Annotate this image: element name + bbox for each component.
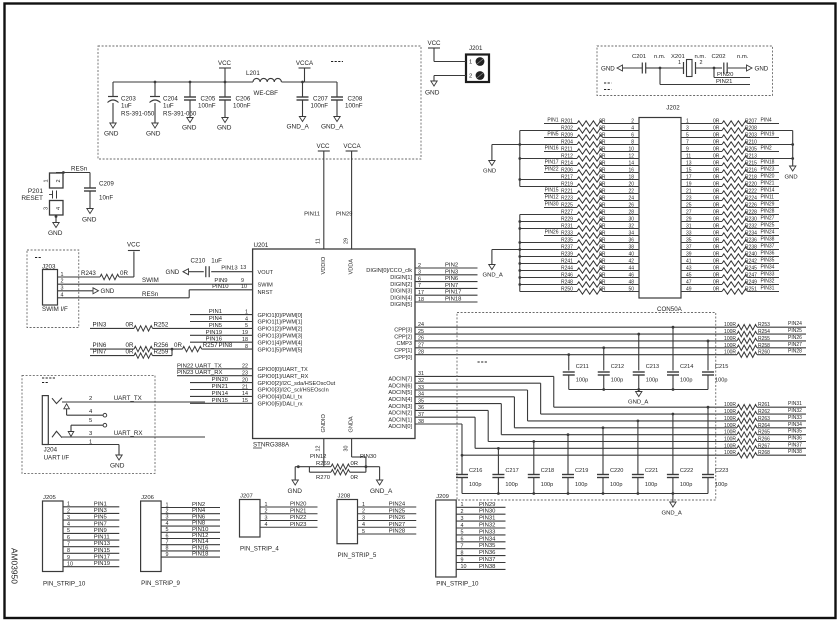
svg-text:1: 1 [44, 179, 50, 182]
svg-text:4: 4 [362, 522, 365, 528]
svg-text:DIGIN[1]: DIGIN[1] [390, 275, 412, 281]
svg-text:0R: 0R [599, 154, 606, 160]
svg-text:UART_TX: UART_TX [114, 395, 142, 402]
svg-text:PIN7: PIN7 [93, 349, 107, 356]
svg-text:PIN37: PIN37 [479, 557, 495, 563]
svg-text:5: 5 [166, 527, 169, 533]
svg-text:CMP3: CMP3 [396, 341, 412, 347]
svg-text:PIN28: PIN28 [761, 209, 775, 215]
svg-text:33: 33 [686, 231, 692, 237]
svg-text:23: 23 [686, 196, 692, 202]
svg-text:100nF: 100nF [198, 103, 216, 110]
svg-text:n.m.: n.m. [737, 54, 749, 60]
svg-text:R223: R223 [561, 196, 573, 202]
svg-text:5: 5 [461, 530, 464, 536]
svg-text:PIN_STRIP_5: PIN_STRIP_5 [338, 552, 377, 559]
svg-text:R243: R243 [81, 270, 96, 277]
svg-text:0R: 0R [713, 203, 720, 209]
svg-text:0R: 0R [713, 126, 720, 132]
svg-text:0R: 0R [599, 224, 606, 230]
svg-text:GND_A: GND_A [483, 273, 503, 279]
svg-text:J204: J204 [44, 447, 58, 454]
svg-text:GPIO0[3]/I2C_scl/HSEOscIn: GPIO0[3]/I2C_scl/HSEOscIn [258, 388, 329, 394]
svg-text:4: 4 [166, 521, 169, 527]
svg-text:0R: 0R [599, 287, 606, 293]
svg-text:3: 3 [67, 515, 70, 521]
svg-text:2: 2 [700, 60, 703, 66]
svg-text:100R: 100R [724, 329, 736, 335]
svg-text:35: 35 [686, 238, 692, 244]
svg-text:0R: 0R [599, 245, 606, 251]
svg-text:R235: R235 [561, 238, 573, 244]
svg-text:PIN1: PIN1 [94, 501, 107, 507]
svg-text:PIN16: PIN16 [545, 146, 559, 152]
svg-text:C223: C223 [715, 468, 728, 474]
svg-text:20: 20 [628, 182, 634, 188]
svg-text:7: 7 [461, 544, 464, 550]
svg-text:C209: C209 [99, 181, 114, 188]
svg-text:PIN26: PIN26 [788, 335, 802, 341]
svg-text:PIN25: PIN25 [389, 508, 406, 514]
svg-text:GND: GND [146, 131, 161, 138]
svg-text:VCCA: VCCA [343, 143, 361, 150]
svg-text:C202: C202 [712, 54, 726, 60]
svg-text:PIN20: PIN20 [717, 72, 734, 78]
svg-text:GND: GND [110, 463, 125, 470]
svg-text:0R: 0R [351, 461, 359, 467]
svg-text:29: 29 [343, 238, 349, 244]
svg-text:PIN26: PIN26 [545, 230, 559, 236]
svg-text:0R: 0R [713, 119, 720, 125]
svg-text:13: 13 [240, 265, 246, 271]
svg-text:31: 31 [686, 224, 692, 230]
svg-text:PIN3: PIN3 [445, 269, 459, 275]
svg-text:PIN10: PIN10 [192, 527, 209, 533]
svg-text:C222: C222 [680, 468, 693, 474]
svg-text:C205: C205 [201, 96, 216, 103]
svg-text:1: 1 [265, 502, 268, 508]
svg-text:0R: 0R [713, 133, 720, 139]
svg-text:1: 1 [469, 60, 472, 66]
svg-text:100p: 100p [575, 482, 587, 488]
svg-text:25: 25 [686, 203, 692, 209]
svg-text:PIN12: PIN12 [310, 454, 326, 460]
svg-text:R225: R225 [561, 203, 573, 209]
svg-text:PIN7: PIN7 [94, 521, 107, 527]
svg-text:J209: J209 [436, 494, 449, 500]
svg-text:PIN32: PIN32 [479, 523, 495, 529]
svg-text:ADCIN[7]: ADCIN[7] [388, 377, 412, 383]
svg-text:R227: R227 [561, 210, 573, 216]
svg-text:PIN34: PIN34 [761, 265, 775, 271]
svg-text:PIN17: PIN17 [545, 160, 559, 166]
svg-text:0R: 0R [120, 270, 128, 277]
svg-text:PIN36: PIN36 [761, 251, 775, 257]
svg-text:0R: 0R [713, 266, 720, 272]
svg-text:PIN2: PIN2 [761, 146, 772, 152]
svg-text:C219: C219 [575, 468, 588, 474]
svg-text:0R: 0R [713, 168, 720, 174]
svg-text:0R: 0R [599, 280, 606, 286]
svg-text:PIN22: PIN22 [545, 167, 559, 173]
svg-text:GPIO0[0]/UART_TX: GPIO0[0]/UART_TX [258, 367, 309, 373]
svg-text:PIN20: PIN20 [761, 174, 775, 180]
svg-text:PIN23 UART_RX: PIN23 UART_RX [177, 370, 222, 376]
svg-text:PIN8: PIN8 [192, 521, 206, 527]
svg-text:ADCIN[1]: ADCIN[1] [388, 417, 412, 423]
svg-text:DIGIN[2]: DIGIN[2] [390, 282, 412, 288]
svg-text:GNDIO: GNDIO [321, 414, 327, 433]
svg-text:GND_A: GND_A [662, 511, 682, 517]
svg-text:100p: 100p [680, 482, 692, 488]
svg-text:0R: 0R [599, 175, 606, 181]
svg-text:PIN27: PIN27 [389, 522, 405, 528]
svg-text:ADCIN[6]: ADCIN[6] [388, 383, 412, 389]
svg-text:2: 2 [461, 509, 464, 515]
svg-text:100p: 100p [680, 378, 692, 384]
svg-text:100R: 100R [724, 437, 736, 443]
svg-text:100p: 100p [645, 482, 657, 488]
svg-text:8: 8 [631, 140, 634, 146]
svg-text:10: 10 [628, 147, 634, 153]
svg-text:8: 8 [461, 550, 464, 556]
svg-text:PIN17: PIN17 [445, 290, 461, 296]
svg-text:PIN25: PIN25 [788, 328, 802, 334]
svg-text:PIN10: PIN10 [212, 284, 229, 290]
svg-text:5: 5 [362, 529, 365, 535]
svg-text:PIN30: PIN30 [545, 202, 559, 208]
svg-text:0R: 0R [713, 273, 720, 279]
svg-text:PIN18: PIN18 [192, 552, 209, 558]
svg-text:13: 13 [686, 161, 692, 167]
svg-text:n.m.: n.m. [695, 54, 707, 60]
svg-text:5: 5 [686, 133, 689, 139]
svg-text:0R: 0R [713, 280, 720, 286]
svg-text:PIN5: PIN5 [547, 132, 558, 138]
svg-text:PIN14: PIN14 [212, 391, 229, 397]
svg-text:PIN30: PIN30 [479, 509, 496, 515]
svg-text:J205: J205 [43, 495, 56, 501]
svg-text:21: 21 [686, 189, 692, 195]
svg-text:PIN37: PIN37 [788, 442, 802, 448]
svg-text:C217: C217 [505, 468, 518, 474]
svg-text:R204: R204 [561, 140, 573, 146]
svg-text:100R: 100R [724, 409, 736, 415]
svg-text:100R: 100R [724, 350, 736, 356]
svg-text:11: 11 [316, 238, 322, 244]
svg-text:6: 6 [461, 537, 464, 543]
svg-text:3: 3 [362, 515, 365, 521]
svg-text:VCC: VCC [218, 60, 232, 67]
svg-text:PIN27: PIN27 [788, 342, 802, 348]
svg-text:GND: GND [217, 125, 232, 132]
svg-text:U201: U201 [254, 242, 269, 249]
svg-text:R248: R248 [561, 280, 573, 286]
svg-text:0R: 0R [599, 133, 606, 139]
svg-text:PIN14: PIN14 [761, 188, 775, 194]
svg-text:GND: GND [182, 125, 197, 132]
svg-text:GPIO1[4]/PWM[4]: GPIO1[4]/PWM[4] [258, 340, 303, 346]
svg-text:39: 39 [686, 252, 692, 258]
svg-text:PIN21: PIN21 [290, 508, 306, 514]
svg-text:C212: C212 [611, 364, 624, 370]
svg-text:100p: 100p [505, 482, 517, 488]
svg-text:14: 14 [628, 161, 634, 167]
svg-text:100R: 100R [724, 402, 736, 408]
svg-text:0R: 0R [599, 266, 606, 272]
svg-text:0R: 0R [599, 238, 606, 244]
svg-text:C207: C207 [313, 96, 328, 103]
svg-text:R219: R219 [561, 182, 573, 188]
svg-text:R269: R269 [316, 461, 330, 467]
svg-text:PIN11: PIN11 [94, 535, 110, 541]
svg-text:GND_A: GND_A [628, 400, 648, 406]
svg-text:DIGIN[5]: DIGIN[5] [390, 302, 412, 308]
svg-text:SWIM I/F: SWIM I/F [42, 306, 68, 313]
svg-text:0R: 0R [599, 189, 606, 195]
svg-text:2: 2 [166, 509, 169, 515]
svg-text:PIN38: PIN38 [479, 564, 496, 570]
svg-text:GND: GND [48, 230, 63, 237]
svg-text:R209: R209 [561, 133, 573, 139]
svg-text:PIN1: PIN1 [209, 309, 222, 315]
svg-text:PIN4: PIN4 [192, 508, 206, 514]
svg-text:ADCIN[3]: ADCIN[3] [388, 404, 412, 410]
svg-text:26: 26 [628, 203, 634, 209]
svg-text:PIN19: PIN19 [761, 132, 775, 138]
svg-text:R244: R244 [561, 266, 573, 272]
svg-text:100nF: 100nF [311, 103, 329, 110]
svg-text:0R: 0R [599, 210, 606, 216]
svg-text:12: 12 [316, 446, 322, 452]
svg-text:R217: R217 [561, 175, 573, 181]
svg-text:100nF: 100nF [233, 103, 251, 110]
svg-text:1: 1 [686, 119, 689, 125]
svg-text:PIN3: PIN3 [94, 508, 108, 514]
svg-text:PIN6: PIN6 [445, 276, 459, 282]
svg-text:PIN_STRIP_10: PIN_STRIP_10 [436, 580, 479, 587]
svg-text:32: 32 [628, 224, 634, 230]
svg-text:UART I/F: UART I/F [44, 455, 70, 462]
svg-text:R270: R270 [316, 475, 331, 481]
svg-text:10nF: 10nF [99, 195, 113, 202]
svg-text:4: 4 [67, 522, 70, 528]
svg-text:GND: GND [288, 488, 303, 495]
svg-text:R233: R233 [561, 231, 573, 237]
svg-text:19: 19 [686, 182, 692, 188]
svg-text:PIN27: PIN27 [761, 216, 775, 222]
svg-text:PIN21: PIN21 [716, 79, 732, 85]
svg-text:PIN1: PIN1 [547, 118, 558, 124]
svg-text:PIN2: PIN2 [445, 263, 458, 269]
svg-text:VCCA: VCCA [296, 60, 314, 67]
svg-text:1: 1 [362, 502, 365, 508]
svg-text:R231: R231 [561, 224, 573, 230]
svg-text:PIN15: PIN15 [212, 398, 229, 404]
svg-text:RESn: RESn [71, 166, 88, 173]
svg-text:PIN20: PIN20 [212, 377, 229, 383]
svg-text:0R: 0R [713, 287, 720, 293]
svg-text:4: 4 [631, 126, 634, 132]
svg-text:36: 36 [628, 238, 634, 244]
svg-text:1uF: 1uF [121, 103, 132, 110]
svg-text:6: 6 [67, 535, 70, 541]
svg-text:42: 42 [628, 259, 634, 265]
svg-text:PIN28: PIN28 [389, 529, 406, 535]
svg-text:GND: GND [785, 175, 798, 181]
svg-text:R206: R206 [561, 168, 573, 174]
svg-text:PIN21: PIN21 [761, 181, 775, 187]
svg-text:R246: R246 [561, 273, 573, 279]
svg-text:PIN13: PIN13 [94, 541, 111, 547]
svg-text:PIN15: PIN15 [94, 548, 111, 554]
svg-text:L201: L201 [246, 70, 260, 77]
svg-text:100R: 100R [724, 430, 736, 436]
svg-text:3: 3 [461, 516, 464, 522]
svg-text:2: 2 [56, 179, 62, 182]
svg-text:30: 30 [343, 446, 349, 452]
svg-text:0R: 0R [713, 161, 720, 167]
svg-text:PIN15: PIN15 [545, 188, 559, 194]
svg-text:0R: 0R [599, 119, 606, 125]
svg-text:8: 8 [67, 548, 70, 554]
svg-text:PIN37: PIN37 [761, 244, 775, 250]
svg-text:12: 12 [628, 154, 634, 160]
svg-text:100p: 100p [541, 482, 553, 488]
svg-text:GND: GND [755, 66, 769, 73]
svg-text:44: 44 [628, 266, 634, 272]
svg-text:0R: 0R [713, 189, 720, 195]
svg-text:PIN35: PIN35 [761, 258, 775, 264]
svg-text:RS-391-050: RS-391-050 [163, 111, 197, 118]
svg-text:PIN32: PIN32 [761, 279, 775, 285]
svg-text:100p: 100p [610, 482, 622, 488]
svg-text:PIN24: PIN24 [788, 321, 802, 327]
svg-text:ADCIN[0]: ADCIN[0] [388, 424, 412, 430]
svg-text:0R: 0R [713, 182, 720, 188]
svg-text:CPP[3]: CPP[3] [394, 327, 412, 333]
svg-text:PIN11: PIN11 [304, 212, 320, 218]
svg-text:SWIM: SWIM [258, 282, 274, 288]
svg-text:0R: 0R [599, 182, 606, 188]
svg-text:2: 2 [469, 74, 472, 80]
svg-text:GND: GND [483, 169, 496, 175]
svg-text:GND_A: GND_A [370, 488, 393, 495]
svg-text:0R: 0R [599, 126, 606, 132]
svg-text:GND: GND [601, 66, 615, 73]
svg-text:49: 49 [686, 287, 692, 293]
svg-text:VDDA: VDDA [349, 259, 355, 275]
svg-text:P201: P201 [28, 188, 44, 195]
svg-text:R239: R239 [561, 252, 573, 258]
svg-text:0R: 0R [599, 161, 606, 167]
svg-text:47: 47 [686, 280, 692, 286]
svg-text:PIN36: PIN36 [479, 550, 496, 556]
svg-text:n.m.: n.m. [654, 54, 666, 60]
svg-text:0R: 0R [713, 210, 720, 216]
svg-text:CPP[0]: CPP[0] [394, 355, 412, 361]
svg-text:1: 1 [67, 502, 70, 508]
svg-text:100p: 100p [469, 482, 481, 488]
svg-text:37: 37 [686, 245, 692, 251]
svg-text:3: 3 [686, 126, 689, 132]
svg-text:0R: 0R [713, 224, 720, 230]
svg-text:2: 2 [631, 119, 634, 125]
svg-text:17: 17 [686, 175, 692, 181]
svg-text:ADCIN[4]: ADCIN[4] [388, 397, 412, 403]
svg-text:PIN14: PIN14 [192, 539, 209, 545]
svg-text:VCC: VCC [316, 143, 330, 150]
svg-text:100p: 100p [715, 378, 727, 384]
svg-text:PIN31: PIN31 [479, 516, 495, 522]
svg-text:10: 10 [67, 561, 73, 567]
svg-text:GND_A: GND_A [321, 124, 344, 131]
svg-text:4: 4 [56, 207, 62, 210]
svg-text:PIN22: PIN22 [290, 515, 306, 521]
svg-text:0R: 0R [174, 342, 182, 349]
svg-text:7: 7 [686, 140, 689, 146]
svg-text:GND: GND [82, 217, 97, 224]
svg-text:18: 18 [628, 175, 634, 181]
svg-text:30: 30 [628, 217, 634, 223]
svg-text:1uF: 1uF [211, 258, 222, 265]
svg-text:3: 3 [265, 515, 268, 521]
svg-text:PIN23: PIN23 [290, 522, 307, 528]
svg-text:GPIO0[1]/UART_RX: GPIO0[1]/UART_RX [258, 374, 309, 380]
svg-text:7: 7 [67, 542, 70, 548]
svg-text:1: 1 [461, 502, 464, 508]
svg-text:GND: GND [425, 90, 440, 97]
svg-text:GND: GND [166, 269, 180, 276]
svg-text:ADCIN[2]: ADCIN[2] [388, 411, 412, 417]
svg-text:VCC: VCC [127, 242, 141, 249]
svg-text:3: 3 [166, 515, 169, 521]
svg-text:50: 50 [628, 287, 634, 293]
svg-text:RS-391-050: RS-391-050 [121, 111, 155, 118]
svg-text:0R: 0R [713, 196, 720, 202]
svg-text:0R: 0R [599, 203, 606, 209]
svg-text:2: 2 [362, 509, 365, 515]
svg-text:45: 45 [686, 273, 692, 279]
svg-text:PIN4: PIN4 [761, 118, 772, 124]
svg-text:34: 34 [628, 231, 634, 237]
svg-text:PIN_STRIP_10: PIN_STRIP_10 [43, 581, 86, 588]
svg-text:UART_RX: UART_RX [114, 430, 143, 437]
svg-text:WE-CBF: WE-CBF [254, 90, 279, 97]
svg-text:100p: 100p [576, 378, 588, 384]
svg-text:0R: 0R [599, 231, 606, 237]
svg-text:38: 38 [628, 245, 634, 251]
svg-text:PIN5: PIN5 [209, 323, 223, 329]
svg-text:GPIO0[5]/DALI_rx: GPIO0[5]/DALI_rx [258, 402, 303, 408]
svg-text:2: 2 [67, 508, 70, 514]
svg-text:100R: 100R [724, 423, 736, 429]
svg-text:PIN19: PIN19 [94, 561, 110, 567]
svg-text:PIN19: PIN19 [206, 330, 222, 336]
svg-text:27: 27 [686, 210, 692, 216]
svg-text:0R: 0R [599, 196, 606, 202]
svg-text:PIN12: PIN12 [192, 533, 208, 539]
svg-text:C201: C201 [632, 54, 646, 60]
svg-text:PIN34: PIN34 [788, 422, 802, 428]
svg-text:ADCIN[5]: ADCIN[5] [388, 390, 412, 396]
svg-text:J202: J202 [666, 105, 680, 112]
svg-text:0R: 0R [713, 147, 720, 153]
svg-text:DIGIN[4]: DIGIN[4] [390, 295, 412, 301]
svg-text:0R: 0R [713, 217, 720, 223]
svg-text:0R: 0R [713, 140, 720, 146]
svg-text:24: 24 [628, 196, 634, 202]
